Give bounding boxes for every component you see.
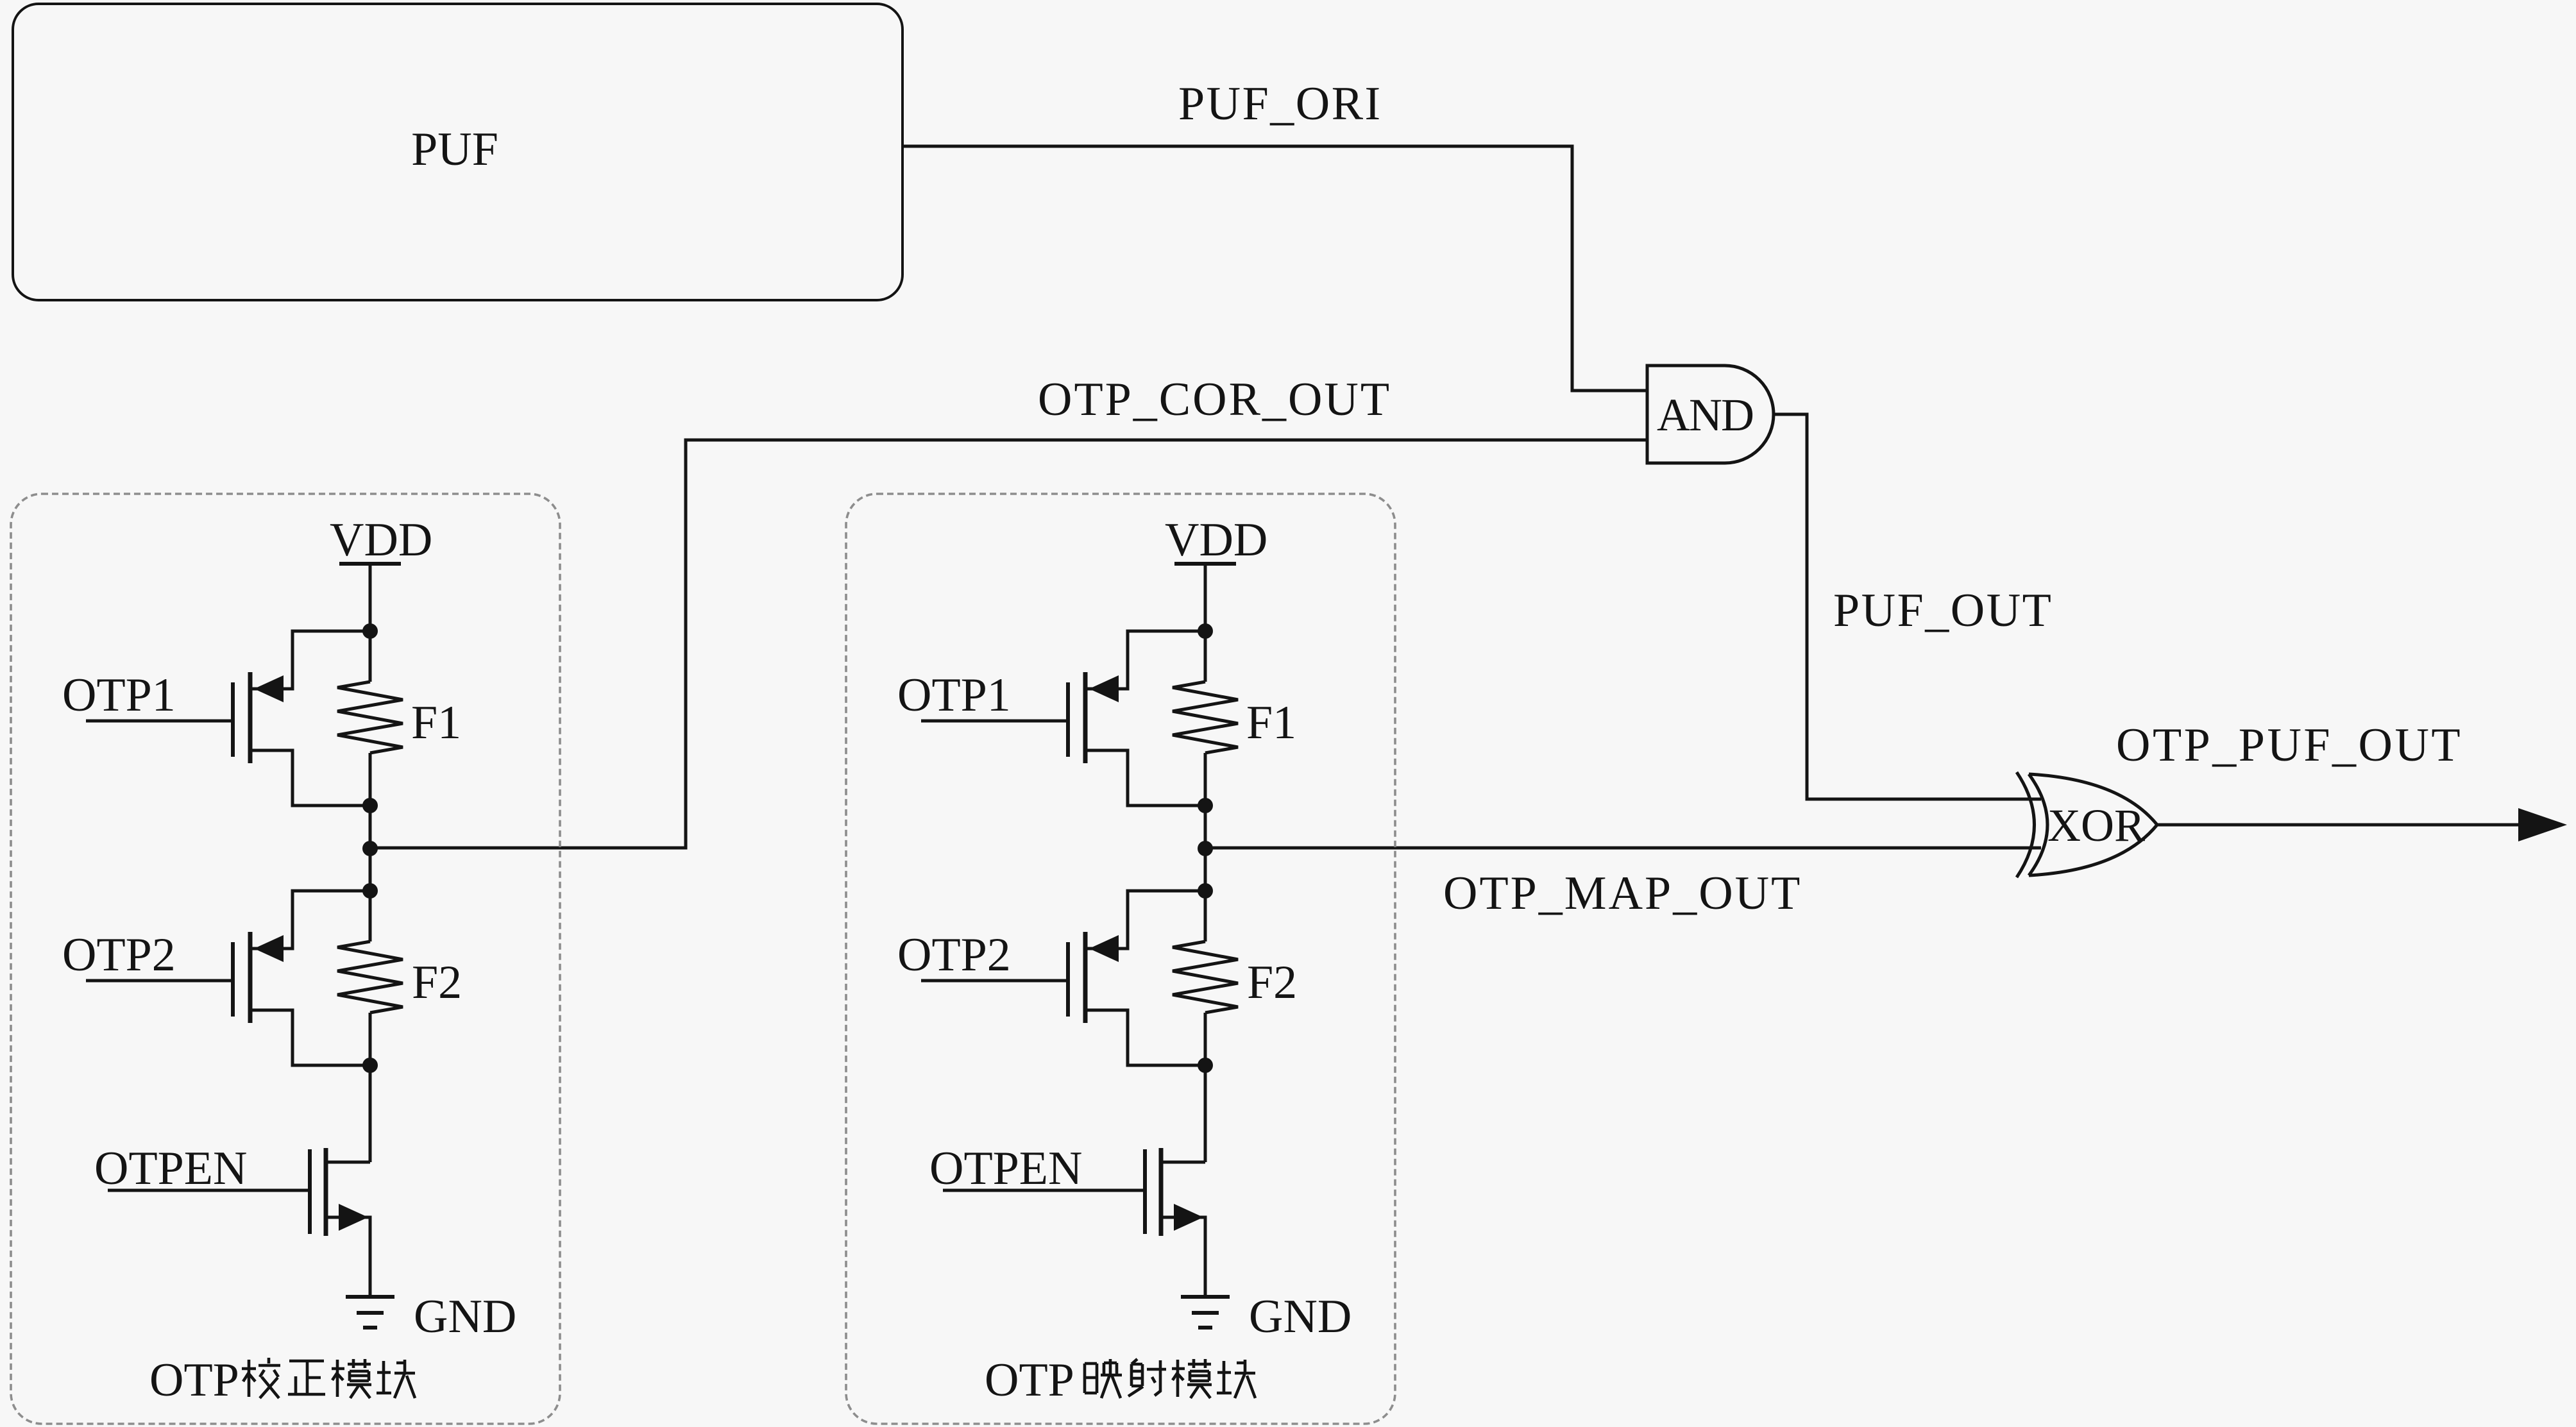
wire F2 to bottom junction	[1204, 1013, 1207, 1162]
wire OTP_MAP_OUT net	[1205, 847, 2041, 850]
svg-text:OTP_MAP_OUT: OTP_MAP_OUT	[1443, 867, 1802, 920]
XOR gate U2	[2017, 772, 2035, 877]
node: output junction	[1198, 841, 1213, 856]
wire NMOS drain	[326, 1161, 370, 1164]
transistor PMOS OTP2	[231, 942, 235, 1017]
svg-text:OTPEN: OTPEN	[929, 1142, 1082, 1195]
svg-text:OTP: OTP	[149, 1354, 239, 1406]
svg-text:GND: GND	[1249, 1290, 1352, 1343]
node: output junction	[362, 841, 378, 856]
svg-text:OTP_COR_OUT: OTP_COR_OUT	[1038, 373, 1391, 426]
wire OTP1 source branch	[1085, 631, 1205, 689]
wire NMOS drain	[1161, 1161, 1205, 1164]
node: F1 bottom junction	[1198, 798, 1213, 813]
svg-text:F2: F2	[412, 956, 462, 1009]
svg-text:PUF_OUT: PUF_OUT	[1833, 584, 2053, 637]
NMOS source arrow	[1174, 1204, 1203, 1231]
svg-text:OTP1: OTP1	[897, 669, 1011, 722]
wire NMOS source	[1161, 1217, 1205, 1297]
wire NMOS source	[326, 1217, 370, 1297]
svg-text:VDD: VDD	[1165, 514, 1267, 566]
wire OTP2 drain branch	[250, 1010, 370, 1065]
svg-text:F1: F1	[1246, 697, 1296, 749]
wire VDD to node	[1204, 564, 1207, 682]
wire OTP1 source branch	[250, 631, 370, 689]
resistor F1	[337, 682, 403, 753]
wire F1 to mid node	[369, 753, 372, 941]
node: F2 top junction	[362, 883, 378, 899]
svg-text:VDD: VDD	[330, 514, 432, 566]
wire OTP2 gate	[86, 979, 233, 983]
VDD rail symbol	[1174, 562, 1236, 566]
svg-text:F1: F1	[411, 697, 461, 749]
wire VDD to node	[369, 564, 372, 682]
node: F1 bottom junction	[362, 798, 378, 813]
svg-text:PUF: PUF	[411, 123, 498, 176]
PMOS OTP1 source arrow	[1089, 675, 1119, 702]
svg-text:AND: AND	[1657, 389, 1753, 441]
transistor NMOS OTPEN	[1143, 1149, 1147, 1234]
svg-text:OTPEN: OTPEN	[94, 1142, 247, 1195]
wire OTP2 source branch	[250, 891, 370, 949]
dashed module box	[11, 494, 560, 1424]
resistor F2	[337, 941, 403, 1013]
ground symbol	[1181, 1295, 1230, 1299]
AND gate U1	[1647, 366, 1774, 463]
PMOS OTP2 source arrow	[254, 935, 284, 962]
transistor NMOS OTPEN	[308, 1149, 312, 1234]
output arrow	[2518, 808, 2567, 841]
wire OTP_PUF_OUT output	[2157, 823, 2521, 827]
wire OTP1 gate	[921, 720, 1068, 723]
wire OTP2 drain branch	[1085, 1010, 1205, 1065]
wire PUF_ORI net	[902, 146, 1646, 391]
wire OTP_COR_OUT net	[370, 440, 1646, 848]
wire F1 to mid node	[1204, 753, 1207, 941]
transistor PMOS OTP1	[1066, 682, 1070, 757]
node: F2 top junction	[1198, 883, 1213, 899]
resistor F1	[1173, 682, 1238, 753]
PUF block	[13, 4, 902, 300]
wire OTP1 drain branch	[250, 750, 370, 806]
svg-text:PUF_ORI: PUF_ORI	[1178, 78, 1382, 130]
svg-text:OTP1: OTP1	[62, 669, 176, 722]
wire OTPEN gate	[943, 1189, 1145, 1192]
wire F2 to bottom junction	[369, 1013, 372, 1162]
node: VDD junction	[362, 623, 378, 639]
transistor PMOS OTP1	[231, 682, 235, 757]
wire OTP1 gate	[86, 720, 233, 723]
svg-text:XOR: XOR	[2047, 800, 2145, 851]
NMOS source arrow	[339, 1204, 368, 1231]
node: F2 bottom junction	[1198, 1058, 1213, 1073]
wire OTP1 drain branch	[1085, 750, 1205, 806]
wire OTP2 gate	[921, 979, 1068, 983]
svg-text:OTP_PUF_OUT: OTP_PUF_OUT	[2116, 719, 2462, 772]
wire OTPEN gate	[108, 1189, 310, 1192]
svg-text:OTP2: OTP2	[62, 929, 176, 981]
resistor F2	[1173, 941, 1238, 1013]
PMOS OTP1 source arrow	[254, 675, 284, 702]
svg-text:GND: GND	[414, 1290, 516, 1343]
node: VDD junction	[1198, 623, 1213, 639]
VDD rail symbol	[339, 562, 401, 566]
svg-text:OTP2: OTP2	[897, 929, 1011, 981]
PMOS OTP2 source arrow	[1089, 935, 1119, 962]
svg-text:F2: F2	[1247, 956, 1297, 1009]
ground symbol	[346, 1295, 394, 1299]
transistor PMOS OTP2	[1066, 942, 1070, 1017]
dashed module box	[846, 494, 1395, 1424]
svg-text:OTP: OTP	[985, 1354, 1074, 1406]
wire OTP2 source branch	[1085, 891, 1205, 949]
wire PUF_OUT net	[1774, 414, 2041, 799]
node: F2 bottom junction	[362, 1058, 378, 1073]
